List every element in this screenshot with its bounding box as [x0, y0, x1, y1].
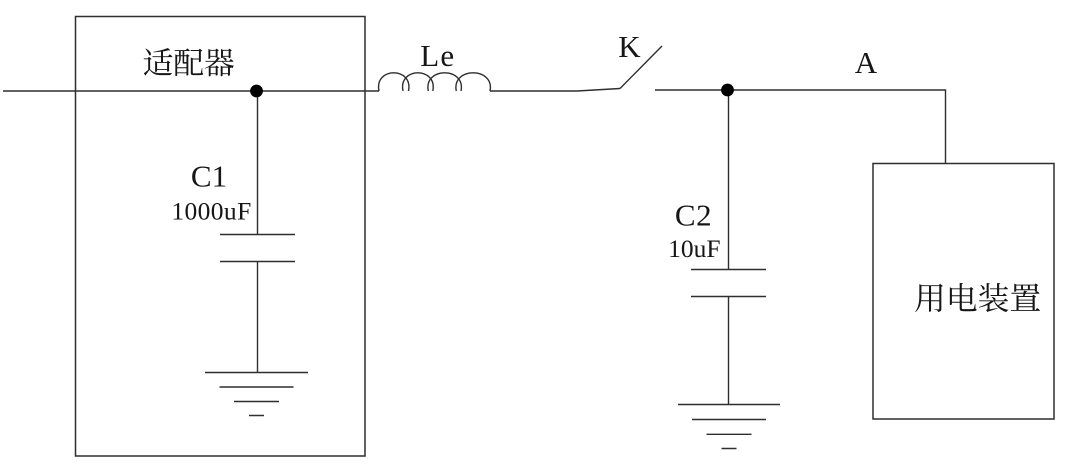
wire: inductor to switch pivot — [490, 89, 620, 92]
switch K arm — [620, 46, 662, 89]
wire: node2 down to C2 top plate — [728, 90, 730, 270]
device box (用电装置) — [873, 164, 1054, 420]
ground (C1) — [205, 373, 308, 416]
ground (C2) — [678, 405, 780, 449]
wire: switch to node and corner down to device box — [655, 90, 946, 164]
svg-text:10uF: 10uF — [668, 234, 720, 263]
svg-text:A: A — [855, 45, 878, 80]
svg-text:Le: Le — [420, 38, 455, 73]
svg-text:C2: C2 — [675, 198, 712, 233]
label 适配器 — [144, 48, 234, 76]
capacitor C2 plates — [691, 270, 766, 297]
svg-text:K: K — [618, 29, 641, 64]
wire: C2 bottom plate to ground — [728, 297, 730, 405]
label 用电装置 — [915, 283, 1040, 312]
svg-text:1000uF: 1000uF — [171, 197, 251, 226]
capacitor C1 plates — [220, 235, 295, 262]
adapter box (适配器) — [76, 17, 366, 457]
svg-text:C1: C1 — [191, 159, 227, 194]
wire: node1 down to C1 top plate — [257, 91, 259, 235]
wire: main input, x=3 to inductor start, y=91 — [3, 90, 379, 92]
wire: C1 bottom plate to ground — [257, 262, 259, 373]
inductor Le — [379, 73, 491, 91]
node junction dot 1 — [250, 85, 263, 98]
node junction dot 2 — [721, 84, 734, 97]
